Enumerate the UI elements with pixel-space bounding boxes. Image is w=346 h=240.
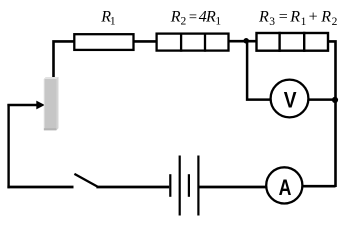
wire voltmeter branch: down from junction, right to V	[247, 41, 270, 100]
ammeter U-A	[266, 167, 302, 203]
svg-text:=: =	[279, 9, 288, 26]
voltmeter U-V	[271, 80, 309, 118]
svg-text:+: +	[309, 9, 318, 26]
svg-text:=: =	[189, 9, 197, 25]
resistor R3	[257, 32, 329, 52]
svg-text:1: 1	[215, 16, 221, 28]
resistor R2	[157, 33, 229, 52]
wire switch to battery	[96, 186, 169, 189]
label R3 = R1 + R2	[258, 9, 338, 29]
svg-text:3: 3	[269, 16, 275, 28]
svg-text:A: A	[279, 175, 292, 200]
svg-text:2: 2	[181, 16, 187, 28]
wire ammeter to right edge	[302, 185, 336, 188]
node junction dot left of R3	[243, 38, 249, 44]
wire top-left corner	[54, 41, 75, 78]
label R1	[100, 9, 116, 28]
wire left edge vertical	[7, 104, 9, 188]
svg-text:R: R	[289, 9, 300, 26]
svg-text:V: V	[284, 88, 297, 113]
battery B1 plates	[170, 156, 198, 216]
label R2 = 4R1	[170, 8, 222, 27]
wire battery to ammeter	[200, 186, 267, 189]
svg-text:1: 1	[110, 16, 116, 28]
wire R3 to right edge, down right side	[328, 41, 335, 187]
resistor R1	[74, 34, 133, 50]
wire voltmeter to right node	[308, 98, 335, 101]
rheostat track gray bar	[44, 77, 59, 130]
svg-text:R: R	[170, 8, 181, 25]
switch S1 blade	[74, 174, 97, 187]
wire R2 to R3	[229, 40, 257, 43]
wire bottom-left to switch	[7, 186, 73, 189]
svg-text:1: 1	[301, 16, 307, 28]
wire R1 to R2	[134, 40, 157, 43]
svg-text:2: 2	[332, 16, 338, 28]
svg-text:R: R	[258, 9, 269, 26]
svg-text:R: R	[205, 8, 216, 25]
rheostat wiper arrow	[7, 101, 44, 110]
svg-text:R: R	[320, 9, 331, 26]
node junction dot right of voltmeter	[332, 97, 338, 103]
